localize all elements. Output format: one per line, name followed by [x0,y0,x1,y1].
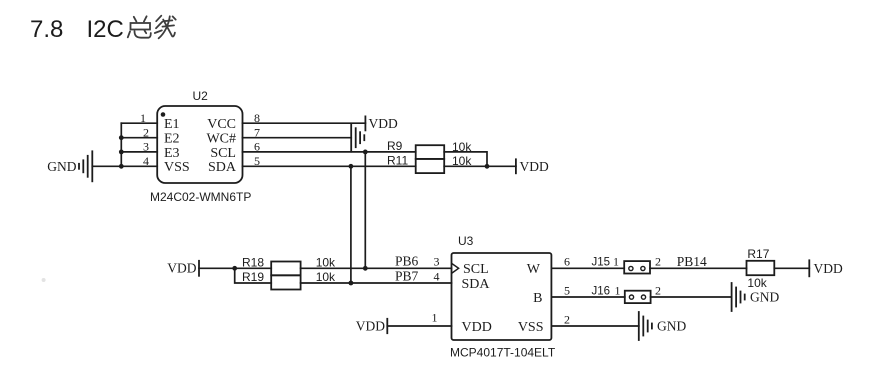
svg-text:2: 2 [143,126,149,140]
U2 pin 3 wire [121,151,157,153]
svg-text:4: 4 [143,154,149,168]
VDD power symbol right of R11 [515,159,517,173]
jumper J16 body [625,291,651,303]
junction on bus pin3 [119,150,124,155]
ground symbol (VSS) [639,312,652,340]
IC U3 box [452,253,552,340]
J15 pad 2 [641,266,645,270]
svg-text:MCP4017T-104ELT: MCP4017T-104ELT [450,346,556,360]
J16 pad 2 [641,295,645,299]
hanzi XIAN (drawn) [155,16,176,39]
svg-text:VDD: VDD [520,159,549,174]
svg-text:PB7: PB7 [395,268,419,283]
svg-text:E2: E2 [164,131,180,146]
VDD power symbol right [808,260,810,276]
svg-text:1: 1 [432,310,438,324]
wire R11 out to VDD [444,165,516,167]
svg-text:R11: R11 [387,154,408,168]
GND symbol left [79,151,92,181]
wire R18 to U3 SCL (PB6) [301,267,452,269]
svg-text:SDA: SDA [208,160,237,175]
svg-text:5: 5 [564,283,570,297]
junction SDA drop [349,164,354,169]
junction on bus pin2 [119,135,124,140]
svg-text:B: B [533,291,542,306]
svg-text:VCC: VCC [207,117,236,132]
junction SCL drop [363,150,368,155]
svg-text:VDD: VDD [814,261,843,276]
svg-text:R19: R19 [242,270,264,284]
svg-text:2: 2 [655,283,661,297]
svg-text:SCL: SCL [463,262,489,277]
wire J15 to R17 [650,267,747,269]
svg-text:7.8: 7.8 [30,16,63,43]
U2 pin 1 wire [121,122,157,124]
junction on bus pin4 [119,164,124,169]
U2 pin1 marker dot [161,112,166,117]
wire R17 to VDD [774,267,809,269]
svg-text:R18: R18 [242,256,264,270]
jumper J15 body [624,261,650,273]
U2 pin 6 wire (SCL) [243,151,416,153]
U2 pin 5 wire (SDA) [243,165,416,167]
svg-text:W: W [527,262,541,277]
resistor R9 [416,145,445,159]
svg-text:6: 6 [564,255,570,269]
wire down to R19 [235,268,272,283]
VDD power symbol top [364,116,366,130]
svg-text:10k: 10k [316,270,336,284]
svg-text:R9: R9 [387,139,403,153]
J16 pad 1 [629,295,633,299]
svg-text:GND: GND [657,319,686,334]
hanzi ZONG (drawn) [128,16,151,37]
svg-text:PB14: PB14 [677,254,707,269]
left bus wire [120,123,122,166]
wire J16 to GND [651,296,732,298]
svg-text:E1: E1 [164,117,180,132]
junction VDD split [232,266,237,271]
svg-text:GND: GND [750,290,779,305]
U3 pin 5 wire (B to J16) [551,296,624,298]
resistor R18 [271,262,300,276]
svg-text:U2: U2 [193,89,209,103]
U3 pin 1 wire [387,325,451,327]
svg-text:R17: R17 [747,247,769,261]
wire R19 to U3 SDA (PB7) [301,282,452,284]
stray faint dot [42,278,46,282]
svg-text:3: 3 [434,255,440,269]
svg-text:M24C02-WMN6TP: M24C02-WMN6TP [150,190,251,204]
vertical wire SCL to U3 [364,152,366,268]
vertical wire SDA to U3 [350,166,352,283]
ground symbol (WC#) [351,124,364,152]
svg-text:VDD: VDD [167,261,196,276]
junction SDA net [349,281,354,286]
svg-text:VDD: VDD [369,116,398,131]
svg-text:VSS: VSS [164,160,190,175]
svg-text:E3: E3 [164,146,180,161]
svg-text:1: 1 [613,255,619,269]
svg-text:10k: 10k [747,276,767,290]
svg-text:VDD: VDD [462,320,492,335]
U2 pin 7 wire to gnd [243,137,352,139]
svg-text:2: 2 [655,255,661,269]
wire R9 out to joint [444,152,487,166]
junction SCL net [363,266,368,271]
svg-text:1: 1 [615,283,621,297]
svg-text:U3: U3 [458,234,474,248]
svg-text:WC#: WC# [206,131,236,146]
svg-text:I2C: I2C [87,16,124,43]
svg-text:4: 4 [434,269,440,283]
resistor R11 [416,159,445,173]
junction R9/R11 [485,164,490,169]
U2 pin 2 wire [121,137,157,139]
svg-text:1: 1 [140,111,146,125]
wire VDD to R18 [199,267,271,269]
svg-text:2: 2 [564,312,570,326]
svg-text:J15: J15 [592,257,611,269]
svg-text:VSS: VSS [518,320,544,335]
svg-text:GND: GND [47,159,76,174]
svg-text:VDD: VDD [356,319,385,334]
svg-text:SDA: SDA [462,277,491,292]
U3 pin 6 wire (W to J15) [551,267,624,269]
svg-text:SCL: SCL [210,146,236,161]
resistor R17 [747,261,775,275]
U3 SCL clock chevron [452,264,458,273]
IC U2 box [157,106,242,183]
VDD power symbol (U3 pin1) [386,319,388,333]
U2 pin 4 wire (to GND) [92,165,157,167]
U3 pin 2 wire (VSS to GND) [551,325,638,327]
resistor R19 [271,275,300,289]
VDD power symbol left [198,261,200,276]
J15 pad 1 [629,266,633,270]
svg-text:J16: J16 [592,285,611,297]
svg-text:3: 3 [143,140,149,154]
svg-text:PB6: PB6 [395,254,419,269]
U2 pin 8 wire to VDD [243,122,366,124]
ground symbol (B) [732,283,745,311]
